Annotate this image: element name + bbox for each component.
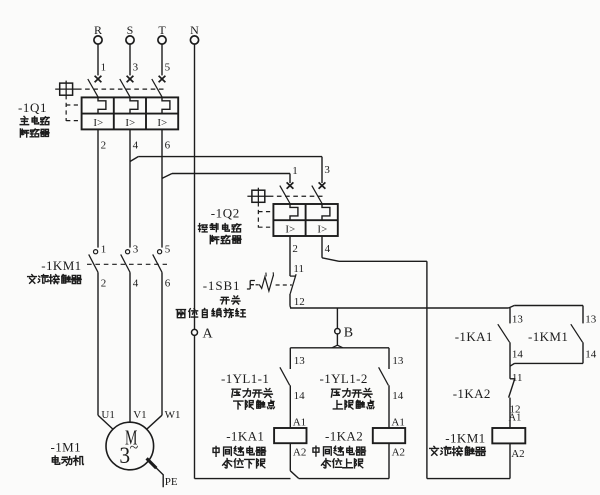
svg-text:A1: A1 [509,413,522,424]
svg-text:13: 13 [585,314,597,326]
svg-text:I>: I> [125,117,135,129]
svg-text:-1KA2: -1KA2 [325,429,363,444]
svg-text:S: S [127,23,134,37]
svg-text:R: R [94,23,102,37]
svg-text:3: 3 [119,443,130,468]
svg-text:-1M1: -1M1 [51,440,82,455]
svg-text:PE: PE [165,476,178,488]
svg-text:I>: I> [93,117,103,129]
svg-text:-1KM1: -1KM1 [41,258,81,273]
svg-text:2: 2 [101,140,107,152]
svg-text:14: 14 [392,390,404,402]
svg-text:-1Q1: -1Q1 [18,100,47,115]
svg-text:1: 1 [101,243,107,255]
svg-text:13: 13 [512,314,524,326]
svg-text:-1KA1: -1KA1 [455,329,493,344]
svg-text:4: 4 [325,243,331,255]
svg-text:14: 14 [294,390,306,402]
svg-text:U1: U1 [101,409,114,421]
svg-text:5: 5 [165,243,171,255]
svg-text:-1KA2: -1KA2 [453,386,491,401]
svg-text:-1KA1: -1KA1 [226,429,264,444]
svg-text:I>: I> [317,224,327,236]
svg-text:1: 1 [292,165,298,177]
svg-text:-1KM1: -1KM1 [528,329,568,344]
svg-text:-1Q2: -1Q2 [211,205,240,220]
svg-text:11: 11 [512,372,523,384]
svg-text:W1: W1 [165,409,181,421]
svg-text:6: 6 [165,140,171,152]
svg-text:6: 6 [165,277,171,289]
svg-text:2: 2 [101,277,107,289]
svg-text:-1KM1: -1KM1 [445,431,485,446]
svg-text:A2: A2 [392,446,405,458]
svg-text:3: 3 [324,164,330,176]
svg-text:A1: A1 [391,416,404,428]
svg-text:B: B [344,326,353,341]
svg-text:-1YL1-2: -1YL1-2 [320,371,368,386]
svg-text:3: 3 [133,243,139,255]
svg-text:1: 1 [101,61,107,73]
svg-text:-1SB1: -1SB1 [203,278,241,293]
svg-text:T: T [158,23,166,37]
svg-text:N: N [190,23,199,37]
svg-text:2: 2 [292,243,298,255]
svg-text:5: 5 [165,61,171,73]
svg-text:-1YL1-1: -1YL1-1 [221,371,269,386]
svg-text:14: 14 [585,349,597,361]
svg-text:I>: I> [285,224,295,236]
svg-text:~: ~ [130,440,139,457]
svg-text:4: 4 [133,277,139,289]
svg-text:13: 13 [392,355,404,367]
svg-text:4: 4 [133,140,139,152]
svg-text:A2: A2 [511,448,524,460]
svg-text:13: 13 [294,355,306,367]
svg-text:14: 14 [512,349,524,361]
svg-text:12: 12 [294,296,305,308]
svg-text:A1: A1 [293,416,306,428]
svg-text:V1: V1 [133,409,146,421]
svg-text:A2: A2 [293,446,306,458]
svg-text:A: A [203,326,214,341]
svg-text:11: 11 [293,263,304,275]
svg-text:I>: I> [157,117,167,129]
svg-text:3: 3 [133,61,139,73]
